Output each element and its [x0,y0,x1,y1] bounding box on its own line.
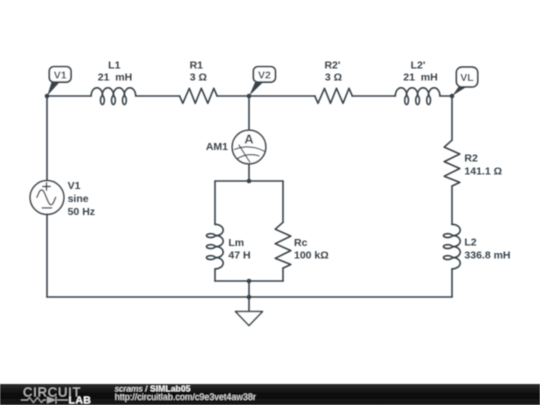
svg-text:http://circuitlab.com/c9e3vet4: http://circuitlab.com/c9e3vet4aw38r [115,392,256,402]
wire left vertical upper [46,96,48,181]
V1 minus sign [42,207,51,209]
svg-text:V1: V1 [54,69,67,81]
svg-text:141.1 Ω: 141.1 Ω [464,166,502,178]
svg-text:47 H: 47 H [228,250,250,262]
junction node V1 [45,94,50,99]
svg-text:L1: L1 [108,59,120,71]
junction node V2 [247,94,252,99]
AM1 needle [239,145,250,162]
node tag V1 [49,67,71,82]
node tag VL [456,67,477,87]
parallel box top rail [215,180,283,182]
wire V2 node to R2' [249,95,315,97]
pointer flag V2 [249,82,263,95]
wire L1 to R1 [136,95,180,97]
svg-text:21 mH: 21 mH [98,72,132,84]
inductor Lm [206,224,223,269]
wire top left: V1 node to L1 [47,95,91,97]
V1 plus sign [43,183,50,190]
wire L2' to VL node [440,95,452,97]
logo schematic wire [21,397,68,404]
AM1 meter scale arc 1 [235,147,264,151]
svg-text:L2': L2' [411,59,426,71]
svg-text:LAB: LAB [69,395,92,405]
footer bar [0,383,540,405]
inductor L1 [91,88,136,105]
V1 sine wave [37,190,56,205]
svg-text:R2': R2' [324,59,340,71]
bottom rail [47,296,452,298]
wire left branch lower [214,269,216,281]
svg-text:L2: L2 [464,237,476,249]
voltage source V1 circle [30,181,64,215]
wire left branch upper [214,181,216,225]
wire right vertical lower [451,269,453,297]
wire right branch lower [282,268,284,281]
resistor Rc [275,222,291,268]
resistor R2' [315,88,353,103]
svg-text:V1: V1 [68,180,81,192]
svg-text:3 Ω: 3 Ω [325,72,342,84]
svg-text:100 kΩ: 100 kΩ [294,250,329,262]
svg-text:V2: V2 [258,69,271,81]
wire box to bottom rail [248,281,250,297]
node tag V2 [253,67,275,82]
ground stub [248,297,250,312]
svg-text:R1: R1 [190,59,204,71]
wire R2' to L2' [352,95,395,97]
AM1 meter scale arc 2 [237,155,259,159]
svg-text:Lm: Lm [228,237,244,249]
svg-text:21 mH: 21 mH [403,72,437,84]
logo diode [47,397,56,404]
svg-text:Rc: Rc [294,237,308,249]
svg-text:VL: VL [460,72,474,84]
svg-text:3 Ω: 3 Ω [190,72,207,84]
inductor L2 [443,224,460,269]
svg-text:R2: R2 [464,153,478,165]
pointer flag VL [452,87,466,96]
junction box bottom [247,279,252,284]
resistor R2 [444,140,460,186]
svg-text:336.8 mH: 336.8 mH [464,249,510,261]
wire right vertical upper [451,96,453,140]
inductor L2' [395,88,440,105]
wire left vertical lower [46,214,48,297]
ammeter AM1 circle [232,130,266,164]
junction bottom rail [247,295,252,300]
pointer flag V1 [47,82,59,95]
wire right branch upper [282,181,284,222]
junction box top [247,179,252,184]
parallel box bottom rail [215,280,283,282]
svg-text:A: A [244,131,254,146]
wire R2 to L2 [451,186,453,225]
resistor R1 [180,88,218,103]
wire V2 down to ammeter [248,96,250,130]
svg-text:AM1: AM1 [206,141,228,153]
wire ammeter to parallel box [248,164,250,181]
wire R1 to V2 node [217,95,249,97]
svg-text:sine: sine [68,193,89,205]
ground triangle [236,312,263,326]
junction node VL [450,94,455,99]
svg-text:50 Hz: 50 Hz [68,206,95,218]
